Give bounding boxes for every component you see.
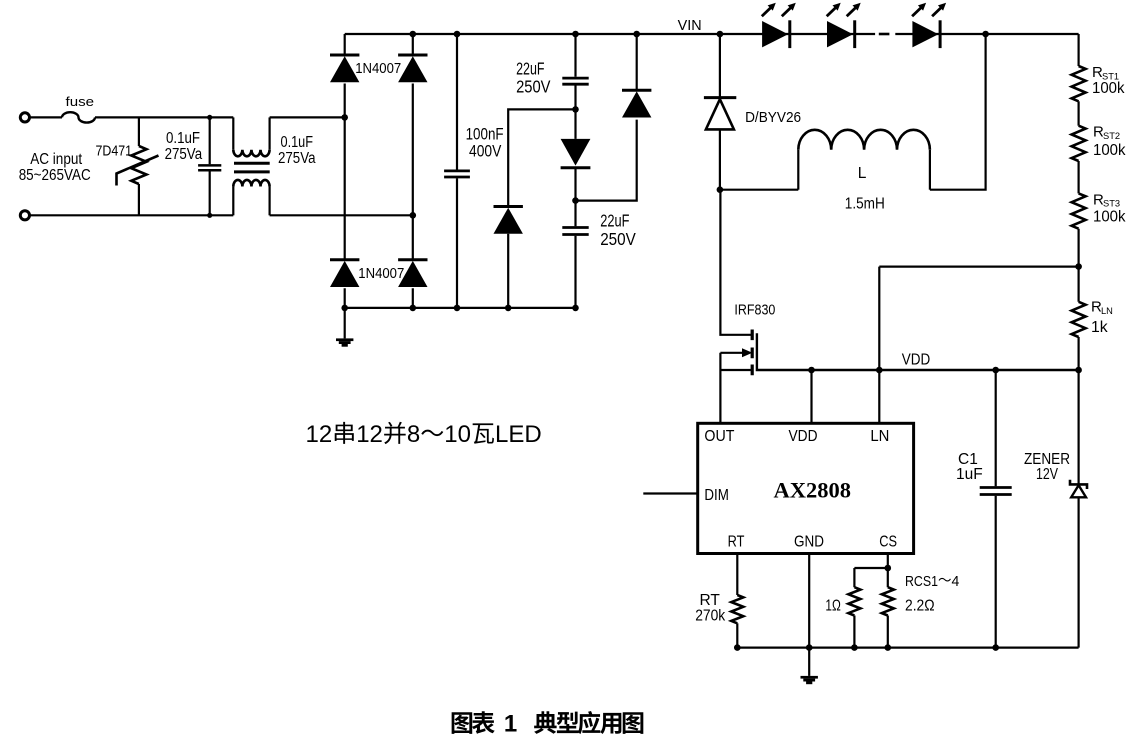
node B junction	[572, 168, 579, 204]
svg-text:12: 12	[356, 421, 383, 448]
label LED configuration 12x12 8-10W	[306, 421, 542, 448]
junction 100nF bottom	[454, 305, 461, 312]
wire bridge left column	[344, 34, 346, 308]
wire RST3 to LN node	[1077, 229, 1079, 302]
wire RST2-RST3	[1077, 161, 1079, 193]
fuse F1	[62, 94, 95, 122]
node A junction	[572, 106, 579, 113]
svg-text:fuse: fuse	[66, 94, 95, 109]
resistor RT 270k	[695, 592, 743, 624]
svg-text:VDD: VDD	[789, 428, 818, 445]
svg-text:275Va: 275Va	[165, 146, 203, 163]
svg-text:LN: LN	[870, 428, 889, 445]
wire node A to D5	[508, 109, 575, 206]
wire RST1-RST2	[1077, 101, 1079, 125]
svg-text:250V: 250V	[516, 76, 551, 96]
label net VDD	[902, 352, 931, 369]
svg-text:ST2: ST2	[1103, 131, 1120, 141]
led LED2	[827, 3, 861, 48]
svg-text:VDD: VDD	[902, 352, 931, 369]
svg-text:1Ω: 1Ω	[825, 597, 840, 614]
wire LN riser	[878, 267, 880, 424]
wire AC-N line (bottom)	[30, 214, 233, 216]
wire fuse to bridge (top AC line)	[95, 116, 233, 118]
wire GND pin	[808, 554, 810, 648]
junction RCS-b bottom	[885, 644, 892, 651]
node VIN	[678, 17, 724, 37]
wire choke to bridge top	[270, 116, 345, 118]
resistor RST1 100k	[1072, 64, 1125, 101]
svg-text:LED: LED	[495, 421, 542, 448]
junction C2 top	[572, 31, 579, 38]
wire D5 to bottom rail	[507, 234, 509, 308]
junction D5 bottom	[505, 305, 512, 312]
diode D1 1N4007	[330, 55, 401, 82]
resistor RST2 100k	[1072, 124, 1126, 162]
svg-text:8: 8	[407, 421, 420, 448]
diode D8 D/BYV26 (freewheel)	[704, 98, 801, 130]
svg-text:1N4007: 1N4007	[355, 61, 401, 77]
svg-text:22uF: 22uF	[600, 211, 629, 231]
capacitor C1 1uF	[956, 370, 1012, 648]
svg-text:1k: 1k	[1091, 319, 1108, 336]
svg-text:270k: 270k	[695, 608, 725, 625]
svg-text:400V: 400V	[469, 142, 501, 160]
svg-text:85~265VAC: 85~265VAC	[19, 167, 91, 184]
svg-text:10: 10	[444, 421, 471, 448]
led LED1	[762, 3, 796, 48]
wire top rail	[345, 33, 875, 35]
junction VDD pin	[808, 367, 815, 374]
resistor RST3 100k	[1072, 191, 1126, 228]
junction LN riser on VDD rail	[876, 367, 883, 374]
junction bridge bottom-right	[410, 305, 417, 312]
svg-text:250V: 250V	[600, 229, 636, 249]
svg-text:AC input: AC input	[30, 151, 83, 168]
label 0.1uF 275Va (X-cap)	[278, 134, 316, 167]
diode D6 (valley-fill middle, pointing down)	[561, 109, 591, 167]
wire VDD pin riser	[810, 370, 812, 423]
resistor RLN 1k	[1072, 299, 1113, 337]
wire RT to bottom rail	[736, 623, 738, 647]
wire LN horizontal	[879, 266, 1078, 268]
wire CS parallel link	[854, 568, 887, 587]
ground (IC GND)	[801, 648, 818, 685]
junction bridge top	[410, 31, 417, 38]
svg-text:L: L	[858, 165, 867, 182]
diode D3 1N4007	[330, 260, 404, 287]
wire CS pin	[887, 554, 889, 569]
svg-text:CS: CS	[879, 533, 897, 550]
svg-text:DIM: DIM	[704, 487, 729, 504]
led LED3	[912, 3, 946, 48]
svg-text:4: 4	[952, 573, 960, 590]
svg-text:0.1uF: 0.1uF	[166, 130, 200, 147]
svg-text:100k: 100k	[1093, 208, 1126, 225]
wire node C to drain	[720, 190, 751, 335]
terminal AC-L	[20, 113, 29, 122]
wire bottom rail (right)	[737, 646, 1078, 648]
label AC input	[30, 151, 83, 168]
node C junction	[717, 186, 724, 193]
diode D4	[398, 260, 427, 287]
wire dashed LED gap	[879, 33, 890, 36]
label caption Figure 1 typical application	[452, 711, 644, 738]
wire gate plate + VDD rail	[757, 333, 1079, 370]
choke T1 core	[234, 163, 270, 172]
junction 100nF top	[454, 31, 461, 38]
svg-text:1uF: 1uF	[956, 466, 983, 483]
svg-text:100nF: 100nF	[466, 126, 504, 144]
transistor Q1 IRF830	[720, 303, 775, 376]
diode D7 (valley-fill right)	[622, 90, 651, 117]
svg-text:VIN: VIN	[678, 17, 702, 34]
junction CS node	[885, 565, 892, 572]
svg-text:1.5mH: 1.5mH	[845, 195, 885, 212]
wire bridge right column	[412, 34, 414, 308]
wire top rail right part	[895, 33, 1078, 35]
wire bottom DC rail	[345, 307, 576, 309]
svg-text:7D471: 7D471	[96, 143, 133, 160]
junction CX1 top	[207, 115, 212, 120]
svg-text:LN: LN	[1101, 306, 1113, 316]
diode D2	[398, 55, 427, 82]
capacitor CX1 0.1uF 275Va	[165, 117, 222, 215]
junction RLN bottom	[1075, 367, 1082, 374]
svg-text:12V: 12V	[1036, 466, 1059, 483]
svg-text:GND: GND	[794, 533, 824, 550]
svg-text:RCS1: RCS1	[905, 573, 938, 590]
capacitor C2 22uF 250V (upper)	[516, 34, 589, 109]
svg-text:AX2808: AX2808	[774, 478, 852, 503]
wire D8 to node C	[719, 129, 721, 189]
junction D7 top	[633, 31, 640, 38]
resistor RCS-a 1 ohm	[825, 587, 860, 615]
svg-text:D/BYV26: D/BYV26	[745, 109, 801, 126]
junction GND bottom	[806, 644, 813, 651]
svg-text:OUT: OUT	[704, 428, 734, 445]
svg-text:275Va: 275Va	[278, 150, 316, 167]
capacitor 100nF 400V	[444, 34, 504, 308]
junction bridge AC1	[341, 114, 348, 121]
choke T1 bottom winding	[233, 180, 269, 215]
ground (bridge)	[336, 308, 353, 347]
wire DIM pin	[643, 492, 697, 494]
varistor RV1 7D471	[96, 117, 159, 215]
IC U1 AX2808	[698, 423, 914, 553]
inductor L 1.5mH	[798, 130, 930, 213]
svg-text:1: 1	[504, 711, 517, 738]
wire node B to D7	[576, 120, 637, 201]
wire RT pin	[736, 554, 738, 596]
resistor RCS-b 2.2 ohm	[882, 573, 960, 616]
label 85~265VAC	[19, 167, 91, 184]
junction bridge bottom-left	[341, 305, 348, 312]
wire choke to bridge bottom	[270, 214, 413, 216]
junction RT bottom	[734, 644, 741, 651]
wire VIN down to D8	[719, 34, 721, 98]
terminal AC-N	[20, 211, 29, 220]
zener ZD1 12V	[1024, 370, 1087, 648]
svg-text:100k: 100k	[1092, 80, 1125, 97]
junction C1 top	[992, 367, 999, 374]
wire right column top	[1077, 34, 1079, 66]
wire sense resistors to rail	[854, 616, 887, 648]
svg-text:IRF830: IRF830	[734, 303, 775, 319]
svg-text:12: 12	[306, 421, 333, 448]
svg-text:1N4007: 1N4007	[358, 266, 404, 282]
junction C3 bottom	[572, 305, 579, 312]
wire RLN to VDD rail	[1077, 337, 1079, 370]
junction RCS-a bottom	[851, 644, 858, 651]
svg-text:100k: 100k	[1093, 142, 1126, 159]
junction LED string end	[982, 31, 989, 38]
svg-text:ST3: ST3	[1103, 199, 1120, 209]
junction bridge AC2	[410, 212, 417, 219]
svg-text:0.1uF: 0.1uF	[281, 134, 314, 151]
common-mode choke T1 top winding	[233, 117, 269, 156]
junction CX1 bottom	[207, 213, 212, 218]
node LN junction	[1075, 263, 1082, 270]
junction C1 bottom	[992, 644, 999, 651]
wire source to OUT pin	[719, 353, 721, 424]
diode D5 (valley-fill left)	[494, 207, 523, 234]
wire node C to inductor	[720, 189, 798, 191]
capacitor C3 22uF 250V (lower)	[562, 201, 636, 308]
wire D7 to top rail	[636, 34, 638, 90]
svg-text:RT: RT	[728, 533, 745, 550]
svg-text:2.2Ω: 2.2Ω	[905, 597, 935, 614]
wire AC-L to fuse	[30, 116, 62, 118]
wire LED end down to inductor	[930, 34, 986, 190]
